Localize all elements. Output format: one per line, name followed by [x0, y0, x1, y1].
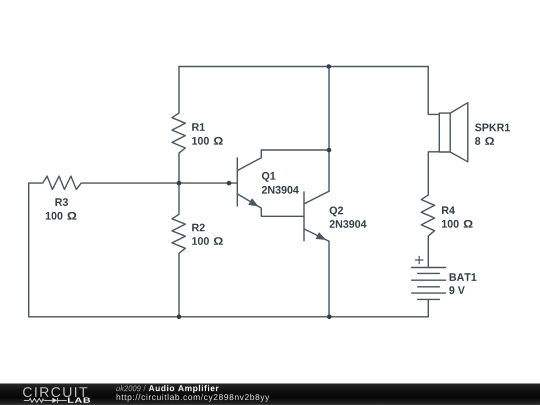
- node Q1 base: [227, 181, 232, 186]
- label SPKR1 value 8 ohm: [475, 137, 480, 145]
- wire left vertical: [28, 183, 30, 317]
- label BAT1 value 9 V: [449, 286, 465, 294]
- logo CIRCUIT: [23, 387, 87, 397]
- speaker SPKR1: [439, 103, 468, 162]
- label R1 value 100 ohm: [192, 137, 209, 145]
- label Q2 part 2N3904: [330, 220, 367, 228]
- transistor Q1: [237, 150, 304, 216]
- label BAT1: [450, 273, 477, 281]
- battery BAT1: [412, 268, 446, 300]
- label R4 value 100 ohm: [442, 220, 459, 228]
- node top junction: [327, 64, 332, 69]
- wire mid vertical upper: [328, 67, 330, 151]
- logo mini circuit: [24, 398, 67, 403]
- footer url: [117, 394, 270, 402]
- logo diode: [52, 398, 57, 403]
- label R2 value 100 ohm: [192, 237, 209, 245]
- logo LAB: [68, 398, 90, 403]
- wire Q1 collector rail: [261, 149, 329, 151]
- label Q2: [330, 207, 343, 217]
- node bottom right junction: [327, 315, 332, 320]
- resistor R2: [172, 183, 185, 317]
- wire battery bottom: [427, 299, 429, 316]
- wire speaker bottom to R4: [428, 152, 439, 195]
- label Q1: [262, 172, 276, 182]
- wire right branch top: [428, 67, 439, 115]
- label SPKR1: [475, 124, 510, 132]
- label R2: [192, 224, 205, 232]
- label Q1 part 2N3904: [262, 186, 299, 194]
- wire Q2 emitter down: [328, 241, 330, 316]
- wire bottom rail: [29, 316, 429, 318]
- node bottom left junction: [177, 315, 182, 320]
- resistor R1: [172, 67, 185, 184]
- label R1: [192, 123, 205, 131]
- footer title Audio Amplifier: [149, 385, 219, 393]
- wire Q1 base: [179, 182, 237, 184]
- resistor R4: [421, 195, 434, 268]
- battery plus sign: [416, 256, 424, 263]
- wire mid vertical lower: [328, 150, 330, 191]
- footer author uk2009: [116, 385, 140, 391]
- node base rail R2 junction: [177, 181, 182, 186]
- node collector rail junction: [327, 148, 332, 153]
- label R4: [442, 206, 455, 214]
- label R3: [55, 198, 68, 206]
- label R3 value 100 ohm: [46, 212, 63, 220]
- footer separator: [143, 385, 145, 391]
- transistor Q2: [304, 191, 329, 241]
- resistor R3: [29, 176, 179, 189]
- wire top rail: [179, 66, 428, 68]
